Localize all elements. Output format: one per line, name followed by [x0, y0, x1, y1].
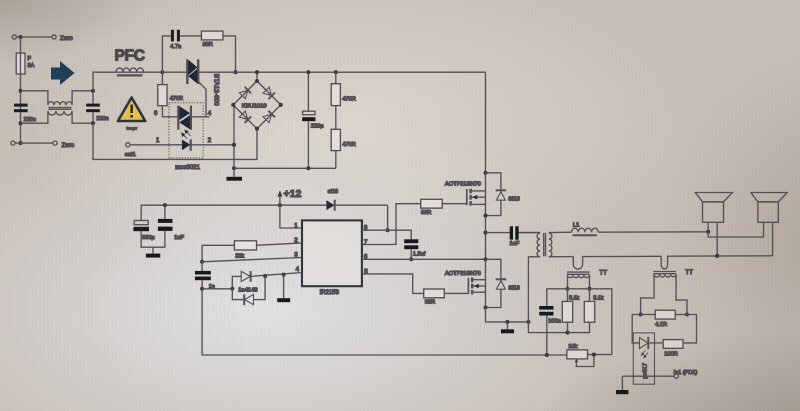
fuse F1 3A: [16, 53, 25, 74]
capacitor 1.5uf: [404, 239, 418, 243]
wire up to PFC rail: [93, 72, 162, 91]
capacitor 680µ electrolytic: [134, 221, 148, 225]
node junction: [263, 274, 267, 278]
capacitor C1 220n: [14, 104, 28, 107]
svg-text:Sf18: Sf18: [508, 286, 520, 292]
wire: [180, 35, 202, 37]
transformer T2 main: [519, 232, 541, 234]
node junction: [18, 121, 22, 125]
svg-text:6: 6: [154, 111, 158, 117]
svg-text:470R: 470R: [170, 96, 183, 102]
resistor 470R upper: [334, 70, 338, 74]
wire left vertex to ground rail: [233, 105, 235, 169]
node junction: [91, 89, 95, 93]
svg-text:220µ: 220µ: [311, 124, 324, 130]
wire A2 to led: [632, 315, 640, 343]
wire: [335, 151, 337, 169]
svg-text:3A: 3A: [28, 63, 35, 69]
svg-text:out1: out1: [125, 152, 136, 158]
svg-text:in1 (PD1): in1 (PD1): [674, 370, 698, 376]
diode bottom-right: [263, 111, 275, 123]
node junction ground stub: [505, 320, 509, 324]
bridge rectifier KBU1010: [256, 72, 258, 81]
wire: [16, 36, 51, 38]
capacitor 4.7n: [171, 30, 174, 42]
svg-text:TT: TT: [685, 269, 693, 276]
wire: [15, 142, 53, 144]
capacitor 1uF coupling: [486, 232, 510, 234]
diode top-right: [263, 87, 275, 99]
svg-text:Danger: Danger: [127, 127, 138, 131]
node junction ground rail: [232, 166, 236, 170]
capacitor 100n: [539, 306, 553, 310]
wire pin7 to upper gate resistor: [362, 204, 421, 245]
svg-text:680µ: 680µ: [142, 235, 155, 241]
node junction: [409, 257, 413, 261]
node junction B2: [685, 312, 689, 316]
node junction A: [160, 70, 164, 74]
node junction: [282, 273, 286, 277]
wire DC bus down to half-bridge: [485, 72, 487, 259]
wire long feedback bottom: [202, 289, 567, 355]
node junction primary return: [526, 320, 530, 324]
node Zero top right terminal: [52, 35, 56, 39]
resistor 470R lower: [331, 129, 340, 150]
transformer TT first: [572, 257, 574, 265]
svg-text:L1: L1: [573, 222, 579, 228]
node drain junction: [483, 171, 487, 175]
node junction: [91, 121, 95, 125]
diode Sf18 lower: [486, 259, 501, 278]
svg-text:4.7n: 4.7n: [170, 44, 181, 50]
power +12 arrow: [279, 196, 281, 206]
capacitor C2 220n: [86, 104, 100, 107]
node junction: [592, 353, 596, 357]
svg-text:Sf18: Sf18: [508, 197, 520, 203]
svg-text:33R: 33R: [425, 300, 435, 306]
node junction: [200, 287, 204, 291]
node junction: [18, 89, 22, 93]
svg-text:220n: 220n: [24, 117, 36, 123]
wire TT2 secondary right: [676, 274, 687, 314]
node Zero top terminal: [12, 35, 16, 39]
node pin3 junction: [200, 260, 204, 264]
light arrows: [181, 130, 191, 139]
warning triangle Danger: [118, 98, 145, 122]
diode Sf18 upper: [486, 173, 501, 190]
ground: [233, 168, 235, 177]
svg-text:220n: 220n: [96, 116, 108, 122]
ground: [506, 322, 508, 329]
wire speakers left net: [708, 222, 763, 237]
speaker SP1: [695, 193, 732, 202]
svg-text:4: 4: [208, 111, 212, 117]
svg-text:39R: 39R: [203, 42, 213, 48]
transformer T1 common-mode choke: [21, 91, 48, 104]
node 1uF junction: [483, 231, 487, 235]
svg-text:4.1R: 4.1R: [655, 322, 667, 328]
node junction bottom-left: [18, 141, 22, 145]
node Zero bottom right terminal: [53, 141, 57, 145]
svg-text:1: 1: [156, 138, 160, 144]
wire pin2: [257, 243, 303, 245]
svg-text:100R: 100R: [664, 351, 677, 357]
wire: [20, 74, 22, 143]
wire L1 to speakers: [598, 231, 708, 233]
ground: [152, 247, 154, 253]
wire neutral down to bridge: [93, 123, 257, 159]
node junction: [587, 287, 591, 291]
diode sf18 bootstrap: [326, 200, 334, 210]
svg-text:1.5uf: 1.5uf: [413, 251, 426, 257]
svg-text:5.1k: 5.1k: [593, 295, 603, 301]
wire +12 rail: [141, 205, 326, 220]
diode top-left: [239, 87, 251, 99]
inductor PFC choke: [116, 68, 144, 72]
svg-text:470R: 470R: [342, 96, 355, 102]
wire: [20, 37, 22, 53]
wire pin8: [362, 230, 411, 239]
resistor 22k: [234, 241, 256, 250]
wire to diode pair: [202, 288, 232, 290]
svg-text:AOTF11SN70: AOTF11SN70: [445, 181, 481, 187]
wire 22k to pin3 node: [202, 245, 234, 261]
wire half-bridge mid down: [485, 259, 487, 307]
node junction: [565, 287, 569, 291]
node junction: [545, 353, 549, 357]
resistor 33R lower: [424, 289, 445, 298]
svg-text:F: F: [28, 56, 32, 62]
resistor 39R: [201, 31, 223, 40]
wire pin5 to lower gate resistor: [362, 274, 424, 294]
transformer TT second: [660, 256, 662, 264]
svg-text:33R: 33R: [421, 210, 431, 216]
speaker SP2: [751, 193, 787, 202]
led pc817: [640, 338, 648, 349]
svg-text:1: 1: [294, 223, 298, 230]
node junction B: [233, 70, 237, 74]
svg-text:moc3021: moc3021: [175, 165, 200, 171]
ground pin4: [283, 275, 285, 299]
node junction: [565, 331, 569, 335]
svg-text:sf18: sf18: [328, 189, 339, 195]
wire secondary1: [567, 275, 569, 289]
led inside moc3021: [130, 144, 182, 146]
node VS junction: [483, 257, 487, 261]
resistor 470R gate: [161, 72, 163, 84]
svg-text:Zero: Zero: [60, 35, 73, 42]
svg-text:Zero: Zero: [62, 142, 75, 149]
node pin8 junction: [386, 228, 390, 232]
node junction top-left: [18, 35, 22, 39]
wire pc817 bottom: [622, 375, 674, 377]
optocoupler moc3021 dashed box: [169, 103, 203, 158]
wire B2 loop to 100R: [683, 315, 697, 343]
wire: [335, 106, 337, 130]
diode 1n4148 lower: [232, 289, 244, 300]
resistor 100R: [663, 340, 683, 349]
wire snubber top rail: [547, 289, 612, 355]
capacitor 220µ electrolytic: [307, 72, 309, 111]
node junction A2: [639, 312, 643, 316]
wire pin6 VS rail: [362, 258, 486, 260]
optocoupler pc817 box: [633, 333, 654, 384]
svg-text:2: 2: [208, 138, 212, 144]
svg-text:+12: +12: [284, 188, 302, 200]
svg-text:IR2153: IR2153: [320, 290, 340, 296]
light arrows pc817: [641, 350, 648, 358]
diode 1n4148 upper: [232, 276, 241, 288]
svg-text:5.1k: 5.1k: [569, 295, 579, 301]
triac BTA12-600: [186, 59, 188, 84]
node junction pin2/bridge: [232, 143, 236, 147]
svg-text:TT: TT: [600, 270, 608, 277]
svg-text:10k: 10k: [568, 344, 577, 350]
ground pc817: [621, 376, 623, 390]
capacitor 1uF: [163, 203, 167, 207]
wire speakers right net: [772, 222, 774, 256]
op-amp U1 IR2153: [302, 220, 362, 286]
wire to pin1: [280, 205, 302, 228]
svg-text:AOTF11SN70: AOTF11SN70: [445, 271, 481, 277]
svg-text:1n4148: 1n4148: [238, 287, 257, 293]
svg-text:1uF: 1uF: [510, 241, 520, 247]
wire source2 to primary return rail: [486, 308, 529, 322]
svg-text:PFC: PFC: [115, 48, 145, 65]
svg-text:KBU1010: KBU1010: [242, 104, 267, 110]
wire DC- rail: [234, 167, 336, 169]
wire pin3: [202, 258, 302, 262]
node Zero bottom terminal: [11, 141, 15, 145]
svg-text:100n: 100n: [548, 318, 560, 324]
capacitor 1n: [201, 262, 203, 271]
wire primary return vertical: [528, 257, 567, 333]
phototriac inside moc3021: [177, 106, 179, 130]
node source2 junction: [483, 305, 487, 309]
node junction: [230, 287, 234, 291]
arrow flow symbol: [51, 61, 75, 85]
wire: [223, 36, 236, 72]
node +12 junction: [278, 203, 282, 207]
wire TT2 secondary left: [641, 274, 655, 314]
resistor 4.1R: [641, 314, 656, 316]
svg-text:22k: 22k: [235, 254, 244, 260]
wire snubber up: [162, 36, 171, 72]
node source junction: [483, 214, 487, 218]
node in1 terminal: [674, 374, 678, 378]
svg-text:1uF: 1uF: [174, 235, 184, 241]
svg-text:470R: 470R: [342, 142, 355, 148]
svg-text:BTA12-600: BTA12-600: [213, 74, 220, 106]
node out1 terminal: [126, 143, 130, 147]
resistor 33R upper: [421, 199, 443, 208]
diode bottom-left: [239, 111, 251, 123]
